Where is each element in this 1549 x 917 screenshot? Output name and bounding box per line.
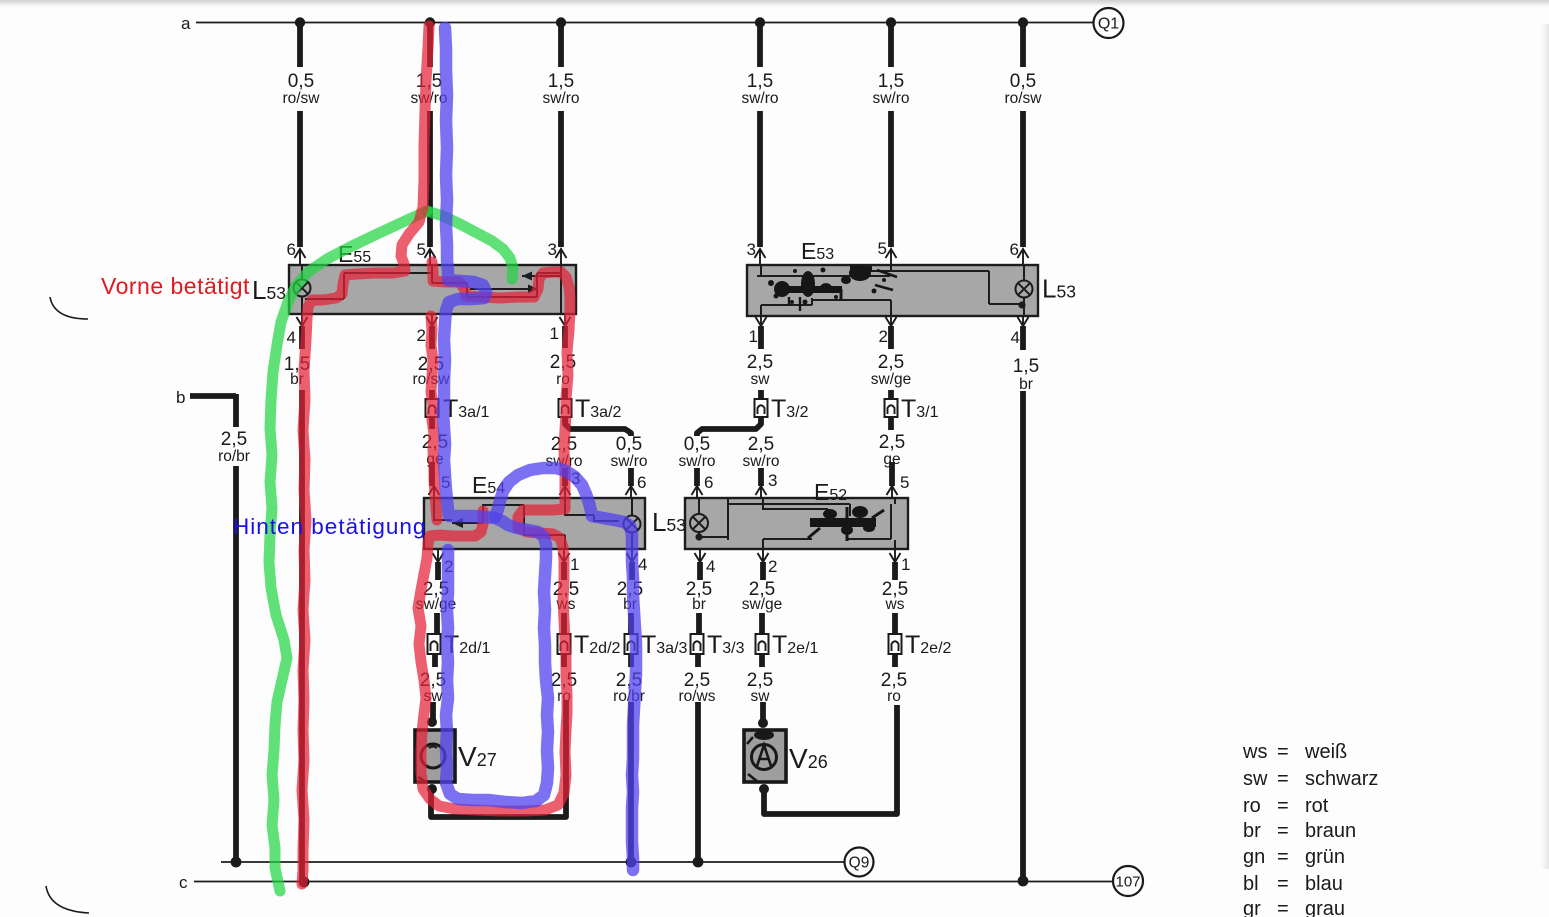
svg-text:grün: grün	[1305, 846, 1345, 868]
svg-text:br: br	[692, 596, 706, 613]
svg-text:2: 2	[768, 557, 777, 576]
svg-text:b: b	[176, 388, 185, 407]
svg-text:1,5: 1,5	[747, 71, 773, 92]
svg-text:0,5: 0,5	[684, 434, 710, 455]
svg-text:weiß: weiß	[1304, 741, 1347, 763]
svg-text:Hinten betätigung: Hinten betätigung	[233, 514, 426, 539]
svg-text:schwarz: schwarz	[1305, 768, 1378, 790]
svg-text:sw: sw	[751, 371, 771, 388]
svg-text:ro/sw: ro/sw	[282, 90, 320, 107]
svg-text:E53: E53	[801, 238, 834, 264]
svg-text:2,5: 2,5	[879, 432, 905, 453]
svg-text:V27: V27	[458, 741, 497, 772]
svg-text:6: 6	[287, 240, 296, 259]
svg-text:gr: gr	[1243, 898, 1261, 917]
svg-text:T2d/2: T2d/2	[574, 631, 621, 659]
svg-text:=: =	[1277, 820, 1289, 842]
svg-text:sw/ge: sw/ge	[871, 371, 912, 388]
svg-text:=: =	[1277, 768, 1289, 790]
svg-text:=: =	[1277, 873, 1289, 895]
svg-text:1: 1	[570, 555, 579, 574]
svg-text:E52: E52	[814, 479, 847, 505]
svg-text:L53: L53	[652, 507, 686, 537]
svg-text:Vorne betätigt: Vorne betätigt	[101, 273, 250, 299]
svg-text:6: 6	[704, 473, 713, 492]
svg-text:1: 1	[550, 324, 559, 343]
svg-text:bl: bl	[1243, 873, 1259, 895]
svg-text:braun: braun	[1305, 820, 1356, 842]
svg-text:2,5: 2,5	[221, 429, 247, 450]
svg-text:4: 4	[706, 557, 715, 576]
svg-text:0,5: 0,5	[288, 71, 314, 92]
svg-text:1,5: 1,5	[548, 71, 574, 92]
svg-text:3: 3	[747, 240, 756, 259]
svg-text:rot: rot	[1305, 795, 1329, 817]
svg-text:sw/ro: sw/ro	[678, 453, 715, 470]
svg-text:=: =	[1277, 898, 1289, 917]
svg-text:2,5: 2,5	[878, 352, 904, 373]
svg-text:ro/sw: ro/sw	[1004, 90, 1042, 107]
svg-text:sw/ro: sw/ro	[542, 90, 579, 107]
svg-text:sw: sw	[751, 688, 771, 705]
svg-text:6: 6	[637, 473, 646, 492]
svg-text:sw/ro: sw/ro	[872, 90, 909, 107]
svg-text:3: 3	[548, 240, 557, 259]
svg-text:T2e/2: T2e/2	[905, 631, 952, 659]
svg-text:0,5: 0,5	[616, 434, 642, 455]
svg-text:4: 4	[638, 555, 647, 574]
svg-text:T3/2: T3/2	[771, 395, 809, 423]
svg-text:1,5: 1,5	[1013, 356, 1039, 377]
svg-text:Q1: Q1	[1098, 16, 1119, 33]
svg-text:4: 4	[287, 328, 296, 347]
svg-text:blau: blau	[1305, 873, 1343, 895]
svg-text:1: 1	[749, 327, 758, 346]
svg-text:a: a	[181, 14, 191, 33]
svg-text:sw/ge: sw/ge	[742, 596, 783, 613]
svg-text:ro/br: ro/br	[218, 448, 250, 465]
svg-text:2,5: 2,5	[747, 352, 773, 373]
svg-text:T3/1: T3/1	[901, 395, 939, 423]
svg-text:5: 5	[878, 239, 887, 258]
svg-text:ws: ws	[1242, 741, 1267, 763]
svg-text:107: 107	[1115, 874, 1140, 891]
svg-text:L53: L53	[1042, 274, 1076, 304]
svg-text:ro: ro	[887, 688, 901, 705]
svg-text:T3/3: T3/3	[707, 631, 745, 659]
svg-text:ro/ws: ro/ws	[678, 688, 715, 705]
svg-text:=: =	[1277, 795, 1289, 817]
svg-text:V26: V26	[789, 743, 828, 774]
svg-text:T3a/3: T3a/3	[641, 631, 688, 659]
svg-text:6: 6	[1010, 240, 1019, 259]
svg-text:br: br	[1243, 820, 1261, 842]
svg-text:2,5: 2,5	[748, 434, 774, 455]
svg-text:br: br	[1019, 376, 1033, 393]
svg-text:ro: ro	[1243, 795, 1261, 817]
svg-text:c: c	[179, 873, 188, 892]
svg-text:sw: sw	[1243, 768, 1268, 790]
svg-text:L53: L53	[252, 275, 286, 305]
svg-text:=: =	[1277, 846, 1289, 868]
svg-text:4: 4	[1011, 328, 1020, 347]
svg-text:5: 5	[900, 473, 909, 492]
svg-text:ge: ge	[883, 451, 900, 468]
svg-text:gn: gn	[1243, 846, 1265, 868]
svg-text:1,5: 1,5	[878, 71, 904, 92]
svg-text:2: 2	[417, 326, 426, 345]
svg-text:2: 2	[879, 327, 888, 346]
svg-text:sw/ro: sw/ro	[741, 90, 778, 107]
svg-text:T2e/1: T2e/1	[772, 631, 819, 659]
svg-text:sw/ro: sw/ro	[610, 453, 647, 470]
svg-text:1: 1	[901, 555, 910, 574]
svg-text:Q9: Q9	[849, 855, 870, 872]
svg-text:3: 3	[768, 471, 777, 490]
svg-text:=: =	[1277, 741, 1289, 763]
svg-text:T3a/2: T3a/2	[575, 395, 622, 423]
svg-text:grau: grau	[1305, 898, 1345, 917]
svg-text:5: 5	[417, 240, 426, 259]
svg-text:ws: ws	[885, 596, 905, 613]
svg-text:0,5: 0,5	[1010, 71, 1036, 92]
svg-text:sw/ro: sw/ro	[742, 453, 779, 470]
